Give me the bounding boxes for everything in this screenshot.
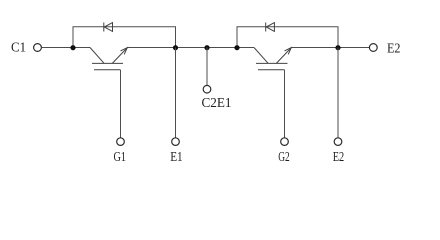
svg-text:C1: C1 (11, 41, 26, 56)
svg-text:G1: G1 (114, 150, 127, 165)
wire diode D1 branch (73, 27, 176, 48)
wire G1 lead (120, 70, 122, 138)
svg-text:E2: E2 (333, 150, 345, 165)
terminal E2 bottom (334, 138, 342, 146)
svg-text:C2E1: C2E1 (202, 96, 232, 111)
terminal C1 (34, 44, 42, 52)
diode D2 (266, 23, 275, 32)
wire C2E1 drop (206, 48, 208, 86)
junction at E2 node (335, 45, 340, 50)
IGBT Q1 (90, 48, 127, 70)
terminal E1 (172, 138, 180, 146)
terminal E2 right (369, 44, 377, 52)
wire E2 drop (337, 48, 339, 138)
wire diode D2 branch (237, 27, 338, 48)
junction at E1 node (173, 45, 178, 50)
wire G2 lead (284, 70, 286, 138)
svg-text:E2: E2 (387, 41, 401, 56)
junction at C1 node (70, 45, 75, 50)
wire C1 to Q1 collector (42, 47, 91, 49)
diode D1 (104, 23, 113, 32)
wire Q1 emitter to Q2 collector (127, 47, 254, 49)
terminal C2E1 (203, 85, 211, 93)
IGBT Q2 (254, 48, 291, 70)
terminal G2 (281, 138, 289, 146)
wire E1 drop (175, 48, 177, 138)
svg-text:G2: G2 (278, 150, 290, 165)
junction at Q2 collector node (234, 45, 239, 50)
svg-text:E1: E1 (170, 150, 183, 165)
terminal G1 (117, 138, 125, 146)
junction at C2E1 node (204, 45, 209, 50)
wire Q2 emitter to E2 terminal (291, 47, 369, 49)
